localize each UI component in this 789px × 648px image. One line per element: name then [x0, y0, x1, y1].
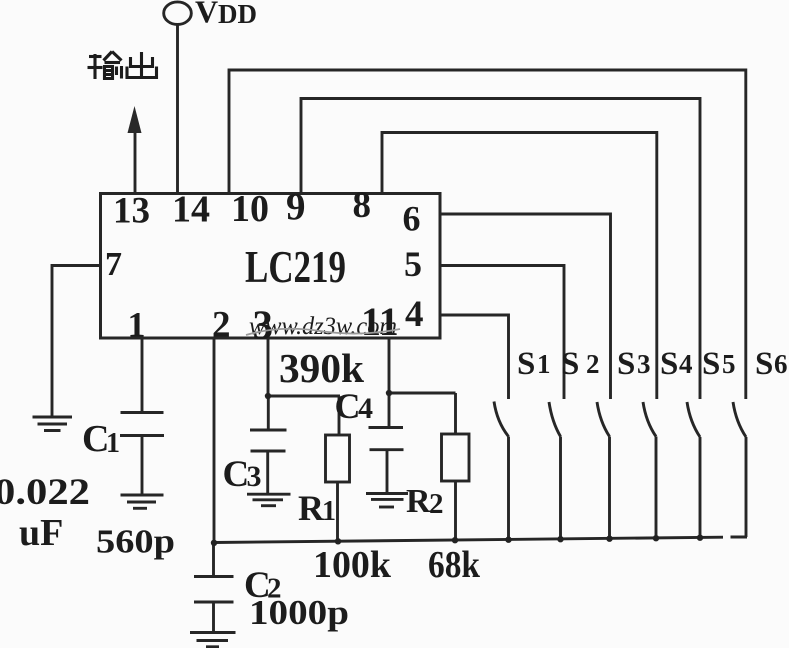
svg-text:6: 6: [403, 199, 421, 239]
svg-text:7: 7: [105, 246, 122, 283]
svg-text:2: 2: [586, 349, 600, 379]
svg-text:S: S: [617, 346, 635, 382]
svg-text:S: S: [755, 346, 773, 382]
svg-text:68k: 68k: [428, 544, 481, 586]
svg-text:10: 10: [231, 188, 269, 230]
svg-text:560p: 560p: [96, 524, 175, 561]
svg-text:8: 8: [353, 185, 372, 226]
svg-text:2: 2: [212, 305, 231, 346]
svg-text:1: 1: [128, 305, 146, 345]
svg-text:3: 3: [247, 460, 262, 493]
svg-text:4: 4: [358, 392, 373, 425]
svg-text:S: S: [517, 346, 535, 382]
svg-text:1000p: 1000p: [249, 593, 349, 632]
svg-text:S: S: [660, 346, 678, 382]
svg-text:uF: uF: [19, 512, 63, 554]
svg-text:1: 1: [322, 496, 336, 527]
svg-text:S: S: [702, 346, 720, 382]
svg-text:0.022: 0.022: [0, 472, 90, 513]
svg-text:www.dz3w.com: www.dz3w.com: [249, 313, 397, 340]
svg-text:390k: 390k: [279, 345, 364, 391]
svg-text:5: 5: [404, 244, 422, 284]
svg-text:5: 5: [722, 349, 736, 379]
svg-text:R: R: [298, 488, 325, 528]
svg-text:6: 6: [774, 349, 788, 379]
svg-text:2: 2: [429, 488, 444, 520]
svg-text:R: R: [406, 483, 431, 520]
svg-text:V: V: [195, 0, 218, 30]
svg-text:4: 4: [679, 349, 693, 379]
svg-text:1: 1: [537, 349, 551, 379]
svg-text:1: 1: [106, 428, 120, 459]
svg-text:100k: 100k: [313, 544, 392, 586]
svg-text:14: 14: [172, 189, 210, 231]
svg-text:4: 4: [405, 294, 424, 335]
svg-text:C: C: [223, 454, 250, 495]
svg-text:DD: DD: [218, 0, 257, 29]
svg-text:C: C: [335, 386, 361, 426]
svg-text:9: 9: [286, 186, 306, 229]
svg-text:3: 3: [637, 349, 651, 379]
svg-text:13: 13: [113, 191, 150, 232]
svg-text:S: S: [561, 346, 579, 382]
svg-text:LC219: LC219: [245, 241, 346, 292]
